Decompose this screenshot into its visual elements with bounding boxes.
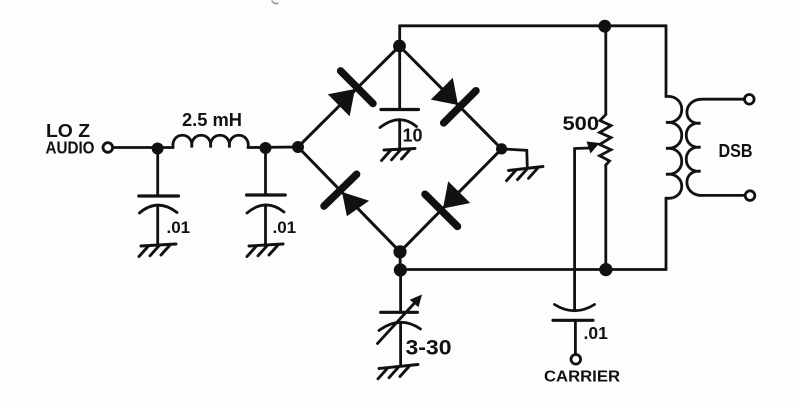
svg-text:.01: .01 (167, 218, 191, 237)
node: diamond bottom junction (393, 245, 406, 258)
node junction dot B (audio line right) (260, 142, 272, 154)
diode D1 (left arm, pointing to top node) (328, 71, 373, 116)
svg-text:CARRIER: CARRIER (544, 369, 620, 386)
wiper arrow of R1 (575, 142, 600, 154)
capacitor C2 .01 (247, 195, 286, 244)
wire: right node to ground stub (502, 149, 528, 168)
wire: top rail (400, 24, 666, 27)
stray smudge top (272, 1, 278, 4)
wire: top node riser to top rail (398, 26, 401, 46)
svg-text:10: 10 (403, 126, 423, 146)
transformer T1 primary winding (666, 26, 682, 270)
wire: wiper down to carrier cap (crosses bottom rail) (573, 149, 576, 311)
wire: bottom rail (400, 268, 666, 271)
svg-text:AUDIO: AUDIO (46, 138, 95, 158)
capacitor C1 .01 (139, 196, 179, 244)
diode D4 (right arm, pointing to bottom node) (425, 181, 470, 226)
capacitor C5 .01 (carrier) (553, 305, 595, 355)
ground (right of diamond) (507, 167, 544, 181)
wire: terminal to first junction (113, 146, 173, 149)
node: DSB output terminal (top) (745, 95, 755, 105)
svg-text:.01: .01 (273, 218, 297, 237)
inductor L1 2.5 mH (173, 135, 248, 147)
variable capacitor C4 3-30 (378, 295, 423, 367)
wire: arm top-right (400, 46, 502, 149)
wire: inductor to diamond left node (248, 146, 298, 149)
wire: pot upper lead (604, 26, 607, 115)
diode ring arms (wires) (298, 46, 502, 252)
ground (below C4) (378, 365, 418, 379)
ground (below C3) (382, 149, 416, 161)
transformer T1 secondary winding (686, 99, 744, 195)
ground (below C2) (247, 244, 283, 257)
svg-text:.01: .01 (584, 323, 609, 343)
svg-text:3-30: 3-30 (406, 337, 452, 360)
diode D2 (top arm, pointing to right node) (431, 78, 476, 123)
node: bottom rail left junction (394, 263, 407, 276)
svg-text:2.5 mH: 2.5 mH (182, 110, 242, 130)
node: top rail pot junction (598, 20, 611, 33)
capacitor C3 10 (380, 110, 419, 149)
node: bottom rail pot junction (599, 263, 612, 276)
diode D3 (bottom arm, pointing to left node) (324, 174, 369, 216)
wire: dot B down to C2 (264, 148, 267, 194)
wire: dot A down to C1 (156, 148, 159, 195)
potentiometer R1 500 (zigzag) (600, 115, 611, 166)
wire: arm bottom-left (298, 147, 400, 252)
wire: bottom node to bottom rail junction (399, 252, 402, 270)
node: diamond right junction (496, 143, 507, 154)
wire: arm right-bottom (400, 149, 502, 252)
svg-text:DSB: DSB (719, 140, 753, 161)
ground (below C1) (139, 244, 176, 257)
svg-text:500: 500 (563, 114, 600, 135)
node: LO Z AUDIO input terminal (103, 143, 113, 153)
node junction dot A (audio line left) (152, 143, 164, 155)
wire: junction down to C4 (399, 270, 402, 311)
node: diamond left junction (292, 141, 304, 153)
wire: arm left-top (298, 46, 400, 147)
wire: pot lower lead (604, 165, 607, 269)
wire: top node down to C3 (398, 46, 401, 109)
node: DSB output terminal (bottom) (745, 191, 755, 201)
node: CARRIER input terminal (571, 355, 581, 365)
node: diamond top junction (393, 40, 406, 53)
